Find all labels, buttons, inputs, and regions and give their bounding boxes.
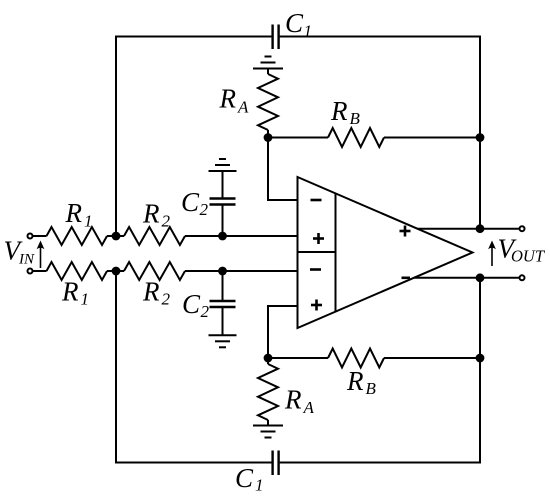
svg-text:2: 2 <box>162 290 171 309</box>
svg-text:R: R <box>142 199 160 229</box>
label C1 bottom <box>235 463 264 495</box>
resistor R1 (bottom) <box>47 262 108 280</box>
wire RB to right rail (bottom) <box>384 357 480 359</box>
svg-text:R: R <box>284 385 302 415</box>
op-amp pin 3 minus sign <box>310 268 321 271</box>
wire node to RA (bottom) <box>267 358 269 364</box>
label R1 bottom <box>61 277 89 309</box>
wire RA to node (top) <box>267 130 269 138</box>
wire C2 top to node <box>222 205 224 237</box>
label VIN <box>4 236 35 268</box>
wire node to RB (bottom) <box>268 357 328 359</box>
wire C2 bottom to ground <box>222 307 224 335</box>
svg-text:2: 2 <box>162 212 171 231</box>
op-amp U1 triangle <box>298 177 473 328</box>
node RA/RB bottom <box>264 354 273 363</box>
wire RA to ground (bottom) <box>267 420 269 426</box>
terminal Vout+ <box>520 226 525 231</box>
node R1/R2/C1 bottom <box>112 267 121 276</box>
wire node to op-amp input 1 <box>268 138 298 201</box>
wire RB to right rail (top) <box>384 137 480 139</box>
svg-text:B: B <box>366 379 377 398</box>
wire Vin- to R1 bottom <box>33 270 47 272</box>
wire bottom-right (C1 bottom feedback, right half) <box>280 278 480 463</box>
label R2 bottom <box>142 277 171 309</box>
wire R2 to op-amp input 3 (bottom) <box>185 270 298 272</box>
label C2 bottom <box>182 289 210 321</box>
svg-text:2: 2 <box>200 200 209 219</box>
node output - <box>476 273 485 282</box>
node RA/RB top <box>264 133 273 142</box>
ground (bottom C2) <box>209 334 237 336</box>
op-amp pin 4 plus sign <box>311 304 322 307</box>
op-amp output wire - <box>414 277 519 279</box>
ground (top RA, inverted) <box>253 68 283 70</box>
svg-text:R: R <box>219 84 237 114</box>
node output + <box>476 224 485 233</box>
wire top-left (C1 top feedback, left half) <box>116 37 272 237</box>
op-amp pin 2 plus sign <box>313 237 324 240</box>
svg-text:R: R <box>142 277 160 307</box>
terminal Vin- <box>28 269 33 274</box>
node R1/R2/C1 top <box>112 232 121 241</box>
wire top-right (C1 top feedback, right half) <box>280 37 480 229</box>
arrow Vin <box>37 241 45 269</box>
node C2 bottom <box>218 267 227 276</box>
svg-text:A: A <box>303 398 315 417</box>
svg-text:R: R <box>61 277 79 307</box>
svg-text:R: R <box>330 96 348 126</box>
wire node to op-amp input 4 <box>268 306 298 358</box>
resistor RA (top) <box>258 74 278 130</box>
svg-text:C: C <box>285 8 304 38</box>
label RB top <box>330 96 361 128</box>
ground (bottom RA) <box>253 425 283 427</box>
capacitor C1 (top) <box>273 25 279 50</box>
wire bottom-left (C1 bottom feedback, left half) <box>116 271 272 463</box>
op-amp output minus sign <box>402 276 411 279</box>
svg-text:R: R <box>65 198 83 228</box>
svg-text:IN: IN <box>18 252 35 268</box>
svg-text:R: R <box>346 366 364 396</box>
label RB bottom <box>346 366 377 398</box>
svg-text:OUT: OUT <box>511 247 546 266</box>
resistor RA (bottom) <box>258 364 278 420</box>
svg-text:1: 1 <box>304 22 313 41</box>
op-amp input box right edge <box>335 193 337 311</box>
svg-text:1: 1 <box>81 290 90 309</box>
wire ground to C2 top <box>222 171 224 199</box>
svg-text:1: 1 <box>255 476 264 495</box>
wire R2 to op-amp input 2 (top) <box>185 235 298 237</box>
op-amp output plus sign <box>400 230 411 233</box>
node RB/right rail top <box>476 133 485 142</box>
capacitor C2 (bottom) <box>210 301 236 307</box>
label RA top <box>219 84 250 117</box>
wire ground to RA top <box>267 69 269 75</box>
label VOUT <box>498 234 546 266</box>
resistor RB (top) <box>328 128 384 147</box>
ground (top C2, inverted) <box>209 170 237 172</box>
svg-text:B: B <box>350 109 361 128</box>
resistor R2 (top) <box>124 227 185 245</box>
capacitor C2 (top) <box>210 199 236 205</box>
node RB/right rail bottom <box>476 354 485 363</box>
svg-text:2: 2 <box>201 302 210 321</box>
wire R1 to node (top) <box>107 235 124 237</box>
resistor R2 (bottom) <box>124 262 185 280</box>
op-amp pin 1 minus sign <box>311 199 322 202</box>
svg-text:A: A <box>237 98 249 117</box>
wire node to RB (top) <box>268 137 328 139</box>
resistor R1 (top) <box>47 227 108 245</box>
resistor RB (bottom) <box>328 349 384 368</box>
capacitor C1 (bottom) <box>273 451 279 476</box>
terminal Vin+ <box>28 234 33 239</box>
label C1 top <box>285 8 312 41</box>
wire Vin+ to R1 top <box>33 235 47 237</box>
label R2 top <box>142 199 171 231</box>
svg-text:1: 1 <box>84 211 93 230</box>
svg-text:C: C <box>235 463 254 493</box>
svg-text:C: C <box>181 187 200 217</box>
arrow Vout <box>488 241 496 267</box>
label RA bottom <box>284 385 315 418</box>
svg-text:C: C <box>182 289 201 319</box>
terminal Vout- <box>520 275 525 280</box>
node C2 top <box>218 232 227 241</box>
label R1 top <box>65 198 93 230</box>
op-amp output wire + <box>417 228 519 230</box>
wire node to C2 bottom <box>222 271 224 301</box>
label C2 top <box>181 187 209 219</box>
wire R1 to node (bottom) <box>107 270 124 272</box>
op-amp input box divider <box>298 251 336 253</box>
